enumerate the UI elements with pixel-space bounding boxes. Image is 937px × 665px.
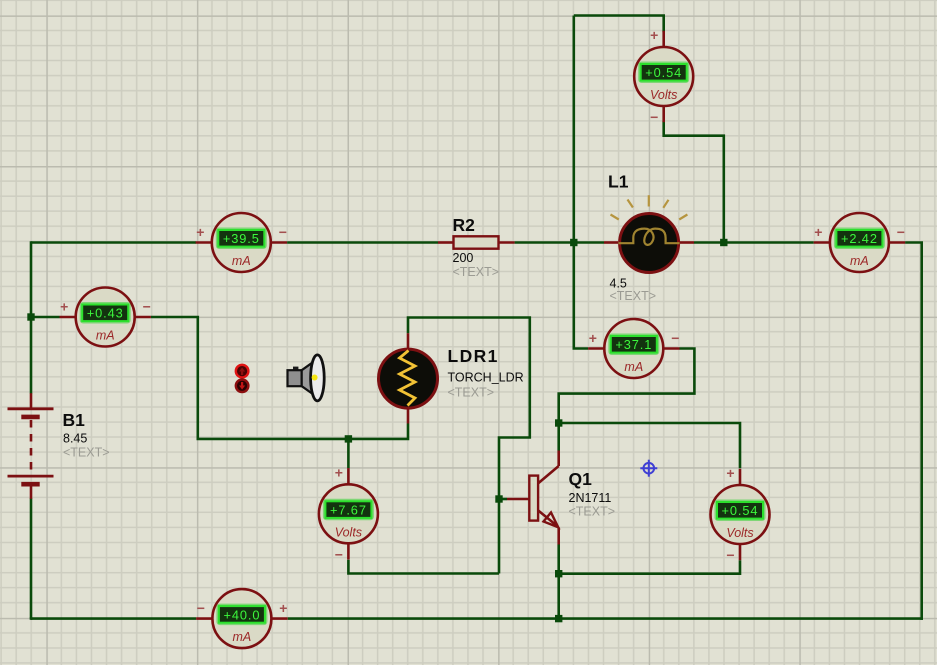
svg-text:+37.1: +37.1 [615, 337, 652, 352]
ammeter AM2 +0.43mA [60, 316, 77, 319]
svg-text:mA: mA [233, 630, 252, 644]
svg-text:+: + [814, 224, 822, 240]
svg-text:200: 200 [453, 251, 474, 265]
node LDR-bottom / VM2+ junction [345, 435, 352, 442]
svg-text:+0.43: +0.43 [87, 306, 124, 321]
wire AM1 to R2 [287, 241, 438, 244]
wire battery+ branch to AM2 [31, 316, 60, 319]
wire left rail upper (top rail corner down to battery) [30, 241, 33, 393]
svg-text:−: − [897, 224, 905, 240]
voltmeter VM2 +7.67V [347, 468, 350, 485]
svg-text:mA: mA [624, 360, 643, 374]
svg-text:−: − [143, 299, 151, 315]
node B junction (lamp right) [720, 239, 727, 246]
svg-text:+7.67: +7.67 [330, 503, 367, 518]
node emitter-to-bottom-rail junction [555, 615, 562, 622]
wire left rail lower (battery- down to bottom rail) [30, 498, 33, 620]
svg-text:<TEXT>: <TEXT> [63, 446, 110, 460]
svg-text:8.45: 8.45 [63, 432, 87, 446]
wire AM2 to LDR bottom [151, 317, 408, 439]
svg-text:Volts: Volts [335, 525, 362, 539]
ammeter AM1 +39.5mA [196, 241, 213, 244]
wire VM1- loop to node B [664, 121, 724, 242]
ammeter AM4 +2.42mA [814, 241, 831, 244]
wire bottom rail right (AM5 to right rail) [288, 617, 923, 620]
node battery+/AM2 branch junction [27, 313, 34, 320]
wire LDR top to Q1 base column [408, 318, 530, 574]
svg-text:<TEXT>: <TEXT> [448, 386, 495, 400]
svg-text:+: + [60, 299, 68, 315]
svg-text:L1: L1 [608, 172, 629, 192]
wire top rail (battery+ to R2 via AM1) [31, 241, 196, 244]
wire emitter node down to bottom rail [557, 574, 560, 619]
svg-text:<TEXT>: <TEXT> [610, 289, 657, 303]
wire VM2+ up to junction [347, 439, 350, 468]
photoresistor LDR1 [407, 333, 410, 349]
wire emitter node up to emitter pin [557, 545, 560, 574]
svg-text:+: + [650, 27, 658, 43]
svg-text:mA: mA [232, 254, 251, 268]
transistor Q1 (NPN) [507, 498, 529, 501]
svg-text:Q1: Q1 [569, 469, 593, 489]
svg-text:−: − [671, 330, 679, 346]
svg-text:<TEXT>: <TEXT> [453, 265, 500, 279]
svg-text:−: − [279, 224, 287, 240]
wire node A vertical (top loop to AM3) [574, 16, 588, 349]
svg-text:+2.42: +2.42 [841, 231, 878, 246]
svg-text:LDR1: LDR1 [448, 346, 499, 366]
wire node B to AM4 [724, 241, 814, 244]
node A junction (R2/lamp/meters) [570, 239, 577, 246]
svg-text:Volts: Volts [726, 526, 753, 540]
svg-text:−: − [335, 546, 343, 562]
LDR light-down button [236, 380, 249, 393]
wire collector node to VM3+ [559, 423, 740, 468]
svg-text:−: − [197, 600, 205, 616]
node Q1 emitter junction [555, 570, 562, 577]
svg-text:2N1711: 2N1711 [569, 491, 612, 505]
svg-text:+: + [726, 465, 734, 481]
node Q1 base junction [495, 495, 502, 502]
svg-text:<TEXT>: <TEXT> [569, 505, 616, 519]
torch (light source icon) [293, 367, 298, 371]
svg-text:mA: mA [96, 329, 115, 343]
wire top loop to VM1+ [574, 16, 664, 33]
wire AM3- loop to collector node [559, 349, 695, 424]
svg-text:+: + [589, 330, 597, 346]
voltmeter VM1 +0.54V (top) [662, 31, 665, 48]
wire AM4 to right rail [905, 241, 923, 244]
svg-text:R2: R2 [453, 215, 476, 235]
wire VM2- to base column [348, 560, 499, 574]
ammeter AM3 +37.1mA [588, 347, 605, 350]
ammeter AM5 +40.0mA (reversed) [196, 617, 213, 620]
svg-text:+: + [196, 224, 204, 240]
svg-text:+: + [335, 464, 343, 480]
sheet origin marker [644, 463, 655, 474]
svg-text:+: + [279, 600, 287, 616]
wire base stub [499, 498, 507, 501]
svg-text:−: − [650, 109, 658, 125]
node Q1 collector junction [555, 419, 562, 426]
svg-text:B1: B1 [63, 410, 86, 430]
lamp L1 [604, 241, 618, 244]
svg-text:+39.5: +39.5 [223, 231, 260, 246]
svg-text:+0.54: +0.54 [722, 503, 759, 518]
wire R2 to node A [515, 241, 574, 244]
svg-text:+0.54: +0.54 [645, 65, 682, 80]
wire lamp to node B [694, 241, 724, 244]
wire right rail [920, 243, 923, 620]
svg-text:+40.0: +40.0 [223, 607, 260, 622]
svg-text:Volts: Volts [650, 88, 677, 102]
svg-text:TORCH_LDR: TORCH_LDR [448, 371, 524, 385]
LDR light-up button [236, 365, 249, 378]
voltmeter VM3 +0.54V (right) [739, 469, 742, 486]
wire bottom rail left (battery- to AM5) [30, 617, 33, 618]
battery B1 [30, 393, 33, 409]
wire node A to lamp [574, 241, 604, 244]
svg-text:mA: mA [850, 254, 869, 268]
svg-text:−: − [726, 547, 734, 563]
wire collector node to collector pin [557, 423, 560, 451]
resistor R2 [438, 241, 454, 244]
wire VM3- to emitter node [559, 560, 740, 573]
